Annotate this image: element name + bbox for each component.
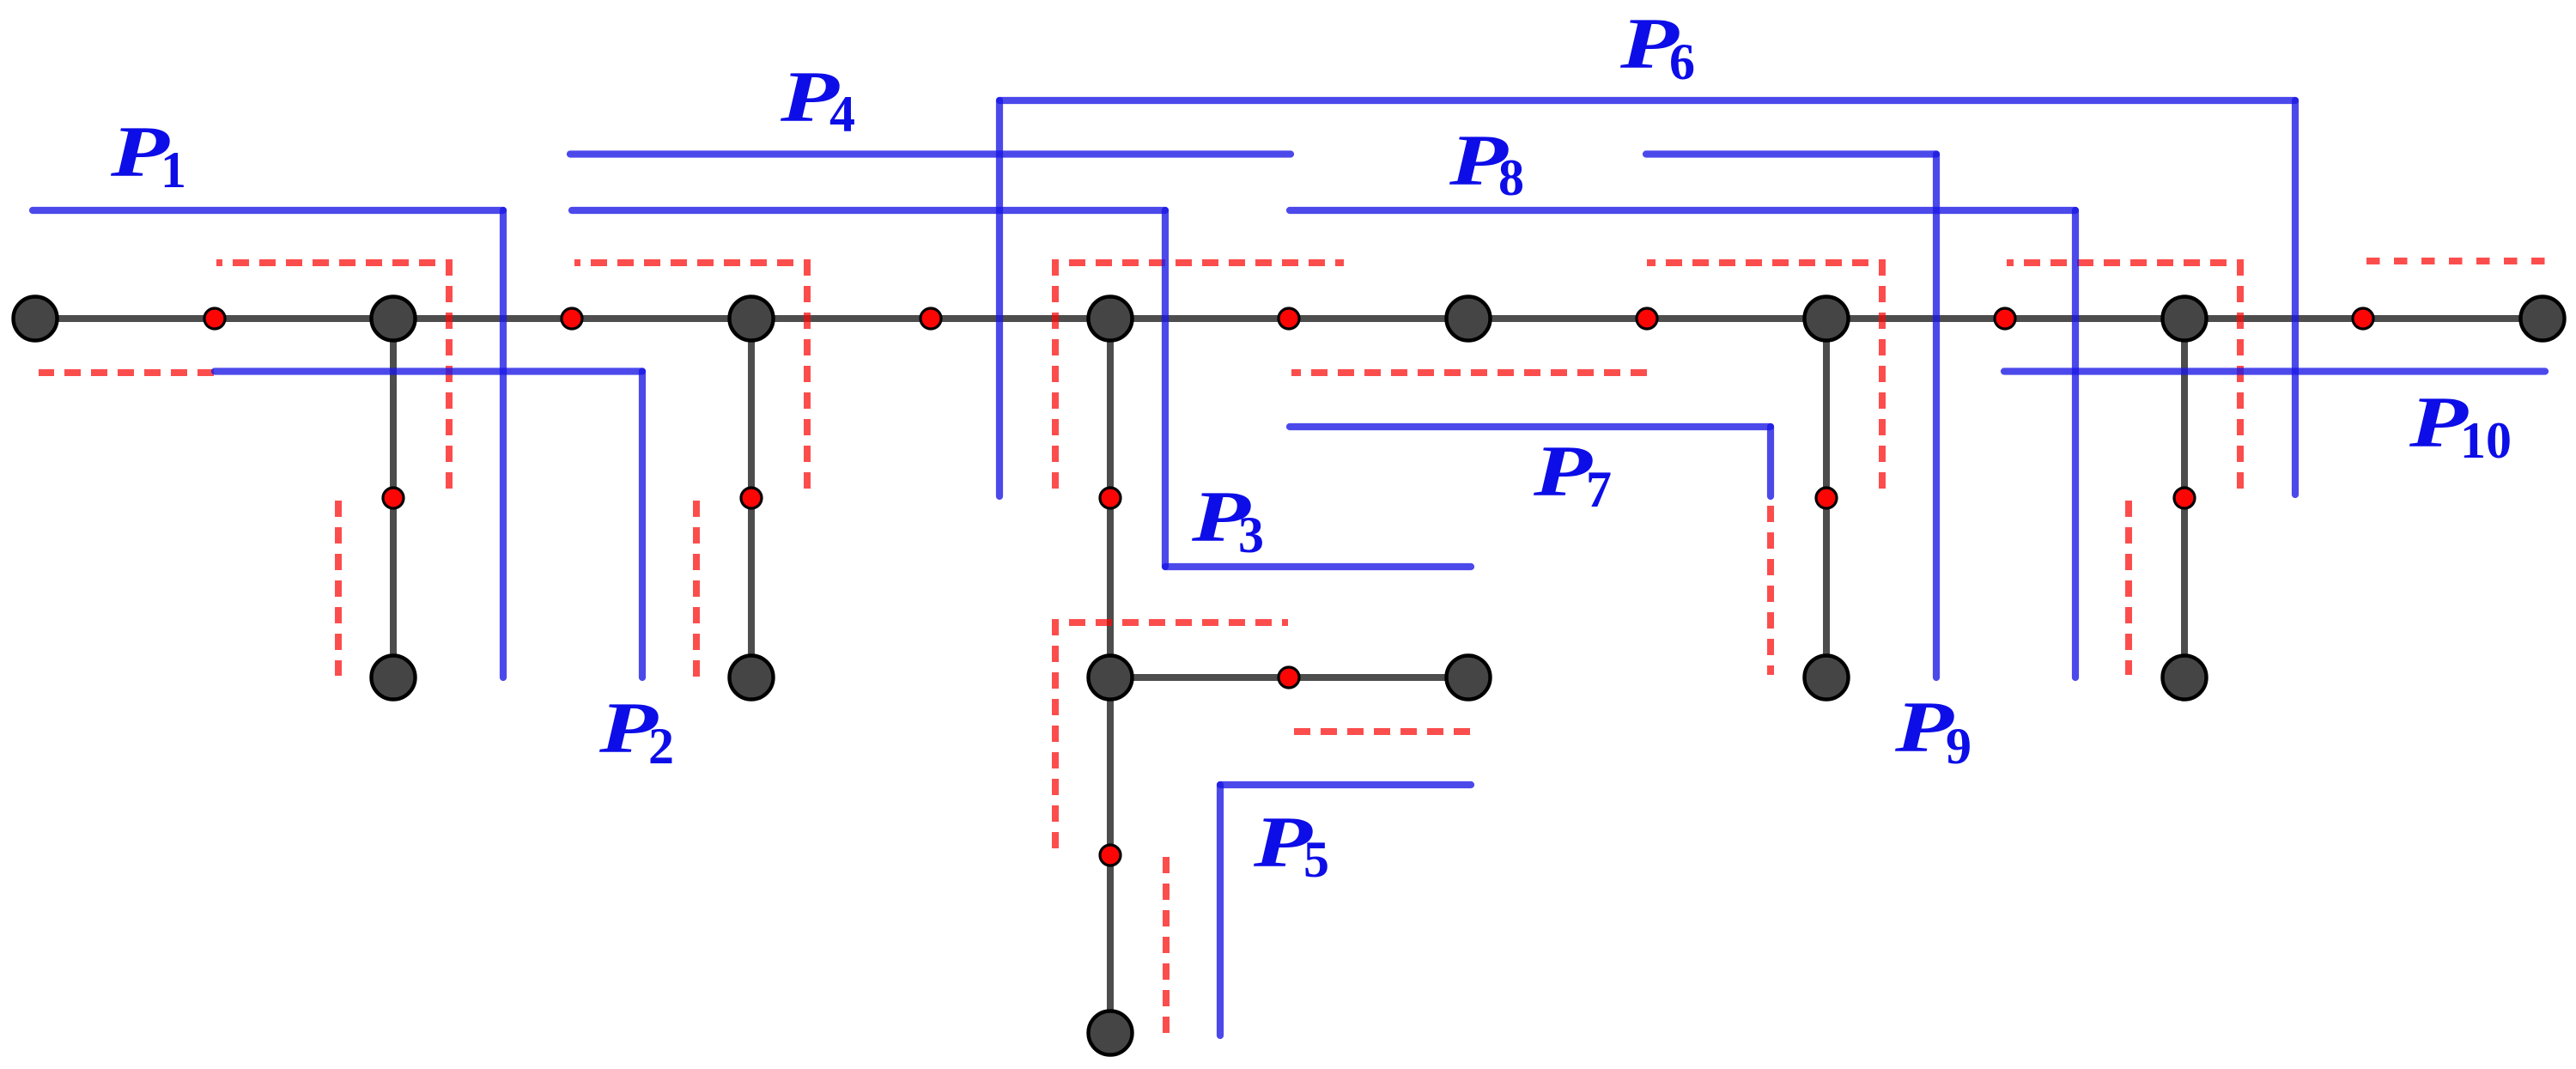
wire: pendant edge v7-l7 xyxy=(2181,319,2188,677)
path P5 xyxy=(1220,785,1471,1036)
path P8 xyxy=(1290,210,2075,677)
subdivision dot s7 xyxy=(2353,308,2373,329)
subdivision dot s2 xyxy=(562,308,582,329)
path P10 xyxy=(2004,367,2545,374)
dashed path B1 (under edge v1-s1) xyxy=(39,369,214,376)
svg-text:P: P xyxy=(1533,431,1594,512)
node v1 xyxy=(14,297,58,341)
path P3 xyxy=(572,210,1471,567)
svg-text:9: 9 xyxy=(1946,718,1971,774)
node v2 xyxy=(372,297,416,341)
node v5 xyxy=(1447,297,1491,341)
svg-text:1: 1 xyxy=(161,142,186,198)
node l7 (leaf under v7) xyxy=(2163,656,2207,700)
label P1 xyxy=(110,112,186,198)
dashed path B13 (bracket left of b4) xyxy=(1055,623,1288,854)
svg-text:10: 10 xyxy=(2460,412,2512,469)
svg-text:8: 8 xyxy=(1498,149,1524,206)
subdivision dot w4 (on edge b4-r4) xyxy=(1279,667,1299,688)
subdivision dot s6 xyxy=(1995,308,2015,329)
dashed path B10 (bracket over v7) xyxy=(2007,263,2240,489)
node b4 (branch under v4) xyxy=(1089,656,1133,700)
dashed path B6 (bracket over v4, corner at left) xyxy=(1055,263,1344,489)
label P4 xyxy=(780,57,855,143)
dashed path B11 (left of leaf l7) xyxy=(2125,501,2132,675)
subdivision dot s5 xyxy=(1637,308,1657,329)
label P2 xyxy=(598,688,674,774)
node l4 (bottom leaf under b4) xyxy=(1089,1011,1133,1055)
dashed path B8 (bracket over v6) xyxy=(1647,263,1882,489)
subdivision dot u4 (on edge b4-l4) xyxy=(1100,845,1121,866)
svg-text:5: 5 xyxy=(1303,831,1329,888)
node v7 xyxy=(2163,297,2207,341)
wire: subtree vertical edge v4-b4-l4 xyxy=(1107,319,1114,1033)
dashed path B2 (bracket over v2) xyxy=(216,263,449,489)
path P4 xyxy=(570,150,1291,157)
dashed path B4 (bracket over v3) xyxy=(574,263,807,489)
svg-text:4: 4 xyxy=(829,86,855,143)
path P1 xyxy=(33,210,503,677)
label P7 xyxy=(1533,431,1612,518)
node v3 xyxy=(730,297,774,341)
wire: pendant edge v3-l3 xyxy=(748,319,755,677)
label P6 xyxy=(1619,3,1695,90)
dashed path B3 (left of leaf l2) xyxy=(335,501,342,676)
subdivision dot t3 (on edge v3-l3) xyxy=(741,488,762,508)
wire: pendant edge v2-l2 xyxy=(390,319,397,677)
subdivision dot t7 (on edge v7-l7) xyxy=(2174,488,2195,508)
subdivision dot t2 (on edge v2-l2) xyxy=(383,488,404,508)
node v8 xyxy=(2521,297,2565,341)
label P9 xyxy=(1894,687,1971,774)
node r4 (right leaf of b4) xyxy=(1447,656,1491,700)
dashed path B9 (left of leaf l6) xyxy=(1767,506,1774,675)
label P8 xyxy=(1449,120,1524,206)
svg-text:2: 2 xyxy=(648,718,674,774)
path P7 xyxy=(1290,427,1771,496)
node l2 (leaf under v2) xyxy=(372,656,416,700)
path P9 xyxy=(1646,155,1936,678)
wire: pendant edge v6-l6 xyxy=(1823,319,1830,677)
subdivision dot s4 xyxy=(1279,308,1299,329)
wire: subtree horizontal edge b4-r4 xyxy=(1110,674,1468,681)
dashed path B12 (over edge s7-v8) xyxy=(2366,258,2552,264)
path P6 xyxy=(999,100,2295,496)
subdivision dot t6 (on edge v6-l6) xyxy=(1816,488,1837,508)
node v6 xyxy=(1805,297,1849,341)
subdivision dot s1 xyxy=(204,308,225,329)
dashed path B14 (under edge b4-r4) xyxy=(1291,728,1470,735)
svg-text:7: 7 xyxy=(1586,461,1612,518)
subdivision dot t4 (on edge v4-b4) xyxy=(1100,488,1121,508)
wire: spine edge v1..v8 xyxy=(35,315,2543,322)
dashed path B7 (under spine between s4 and s5) xyxy=(1291,369,1647,376)
svg-text:3: 3 xyxy=(1238,507,1264,563)
node l6 (leaf under v6) xyxy=(1805,656,1849,700)
label P5 xyxy=(1253,802,1329,888)
label P10 xyxy=(2409,382,2512,469)
svg-text:6: 6 xyxy=(1669,33,1695,90)
node l3 (leaf under v3) xyxy=(730,656,774,700)
label P3 xyxy=(1191,477,1264,563)
node v4 xyxy=(1089,297,1133,341)
dashed path B5 (left of leaf l3) xyxy=(693,501,700,677)
subdivision dot s3 xyxy=(920,308,941,329)
dashed path B15 (right of leaf l4) xyxy=(1163,856,1170,1033)
path P2 xyxy=(215,372,642,678)
